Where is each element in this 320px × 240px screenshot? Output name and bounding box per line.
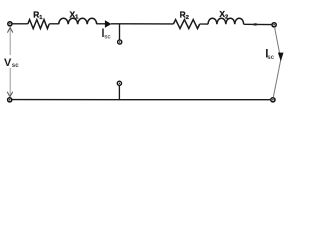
wire between X1 and arrow <box>97 23 105 25</box>
current arrow Isc (primary side) <box>101 20 111 40</box>
node terminal top middle <box>118 40 122 44</box>
terminal top-right <box>272 23 276 27</box>
wire from arrow to R2 <box>111 23 173 25</box>
wire between R1 and X1 <box>49 23 59 25</box>
voltage arrow Vsc <box>4 28 19 97</box>
resistor R1 <box>28 10 49 29</box>
wire top rail left lead <box>13 23 28 25</box>
wire between R2 and X2 <box>200 23 208 25</box>
current arrow Isc (secondary side) <box>265 49 283 62</box>
wire bottom rail <box>12 99 270 101</box>
inductor X2 <box>208 9 244 24</box>
wire from X2 to right terminal <box>244 23 272 25</box>
node stub top (wire) <box>119 24 121 40</box>
short-circuit link wire (secondary) <box>273 27 281 98</box>
inductor X1 <box>59 9 97 24</box>
terminal top-left <box>8 22 12 26</box>
svg-text:sc: sc <box>267 55 274 61</box>
svg-text:sc: sc <box>12 62 19 69</box>
resistor R2 <box>173 9 199 28</box>
svg-text:sc: sc <box>104 34 111 40</box>
terminal bottom-right <box>271 98 275 102</box>
node terminal bottom middle <box>117 81 121 85</box>
svg-text:V: V <box>4 57 12 69</box>
terminal bottom-left <box>8 98 12 102</box>
node stub bottom (wire) <box>118 85 120 99</box>
junction dot on top wire <box>253 23 257 25</box>
